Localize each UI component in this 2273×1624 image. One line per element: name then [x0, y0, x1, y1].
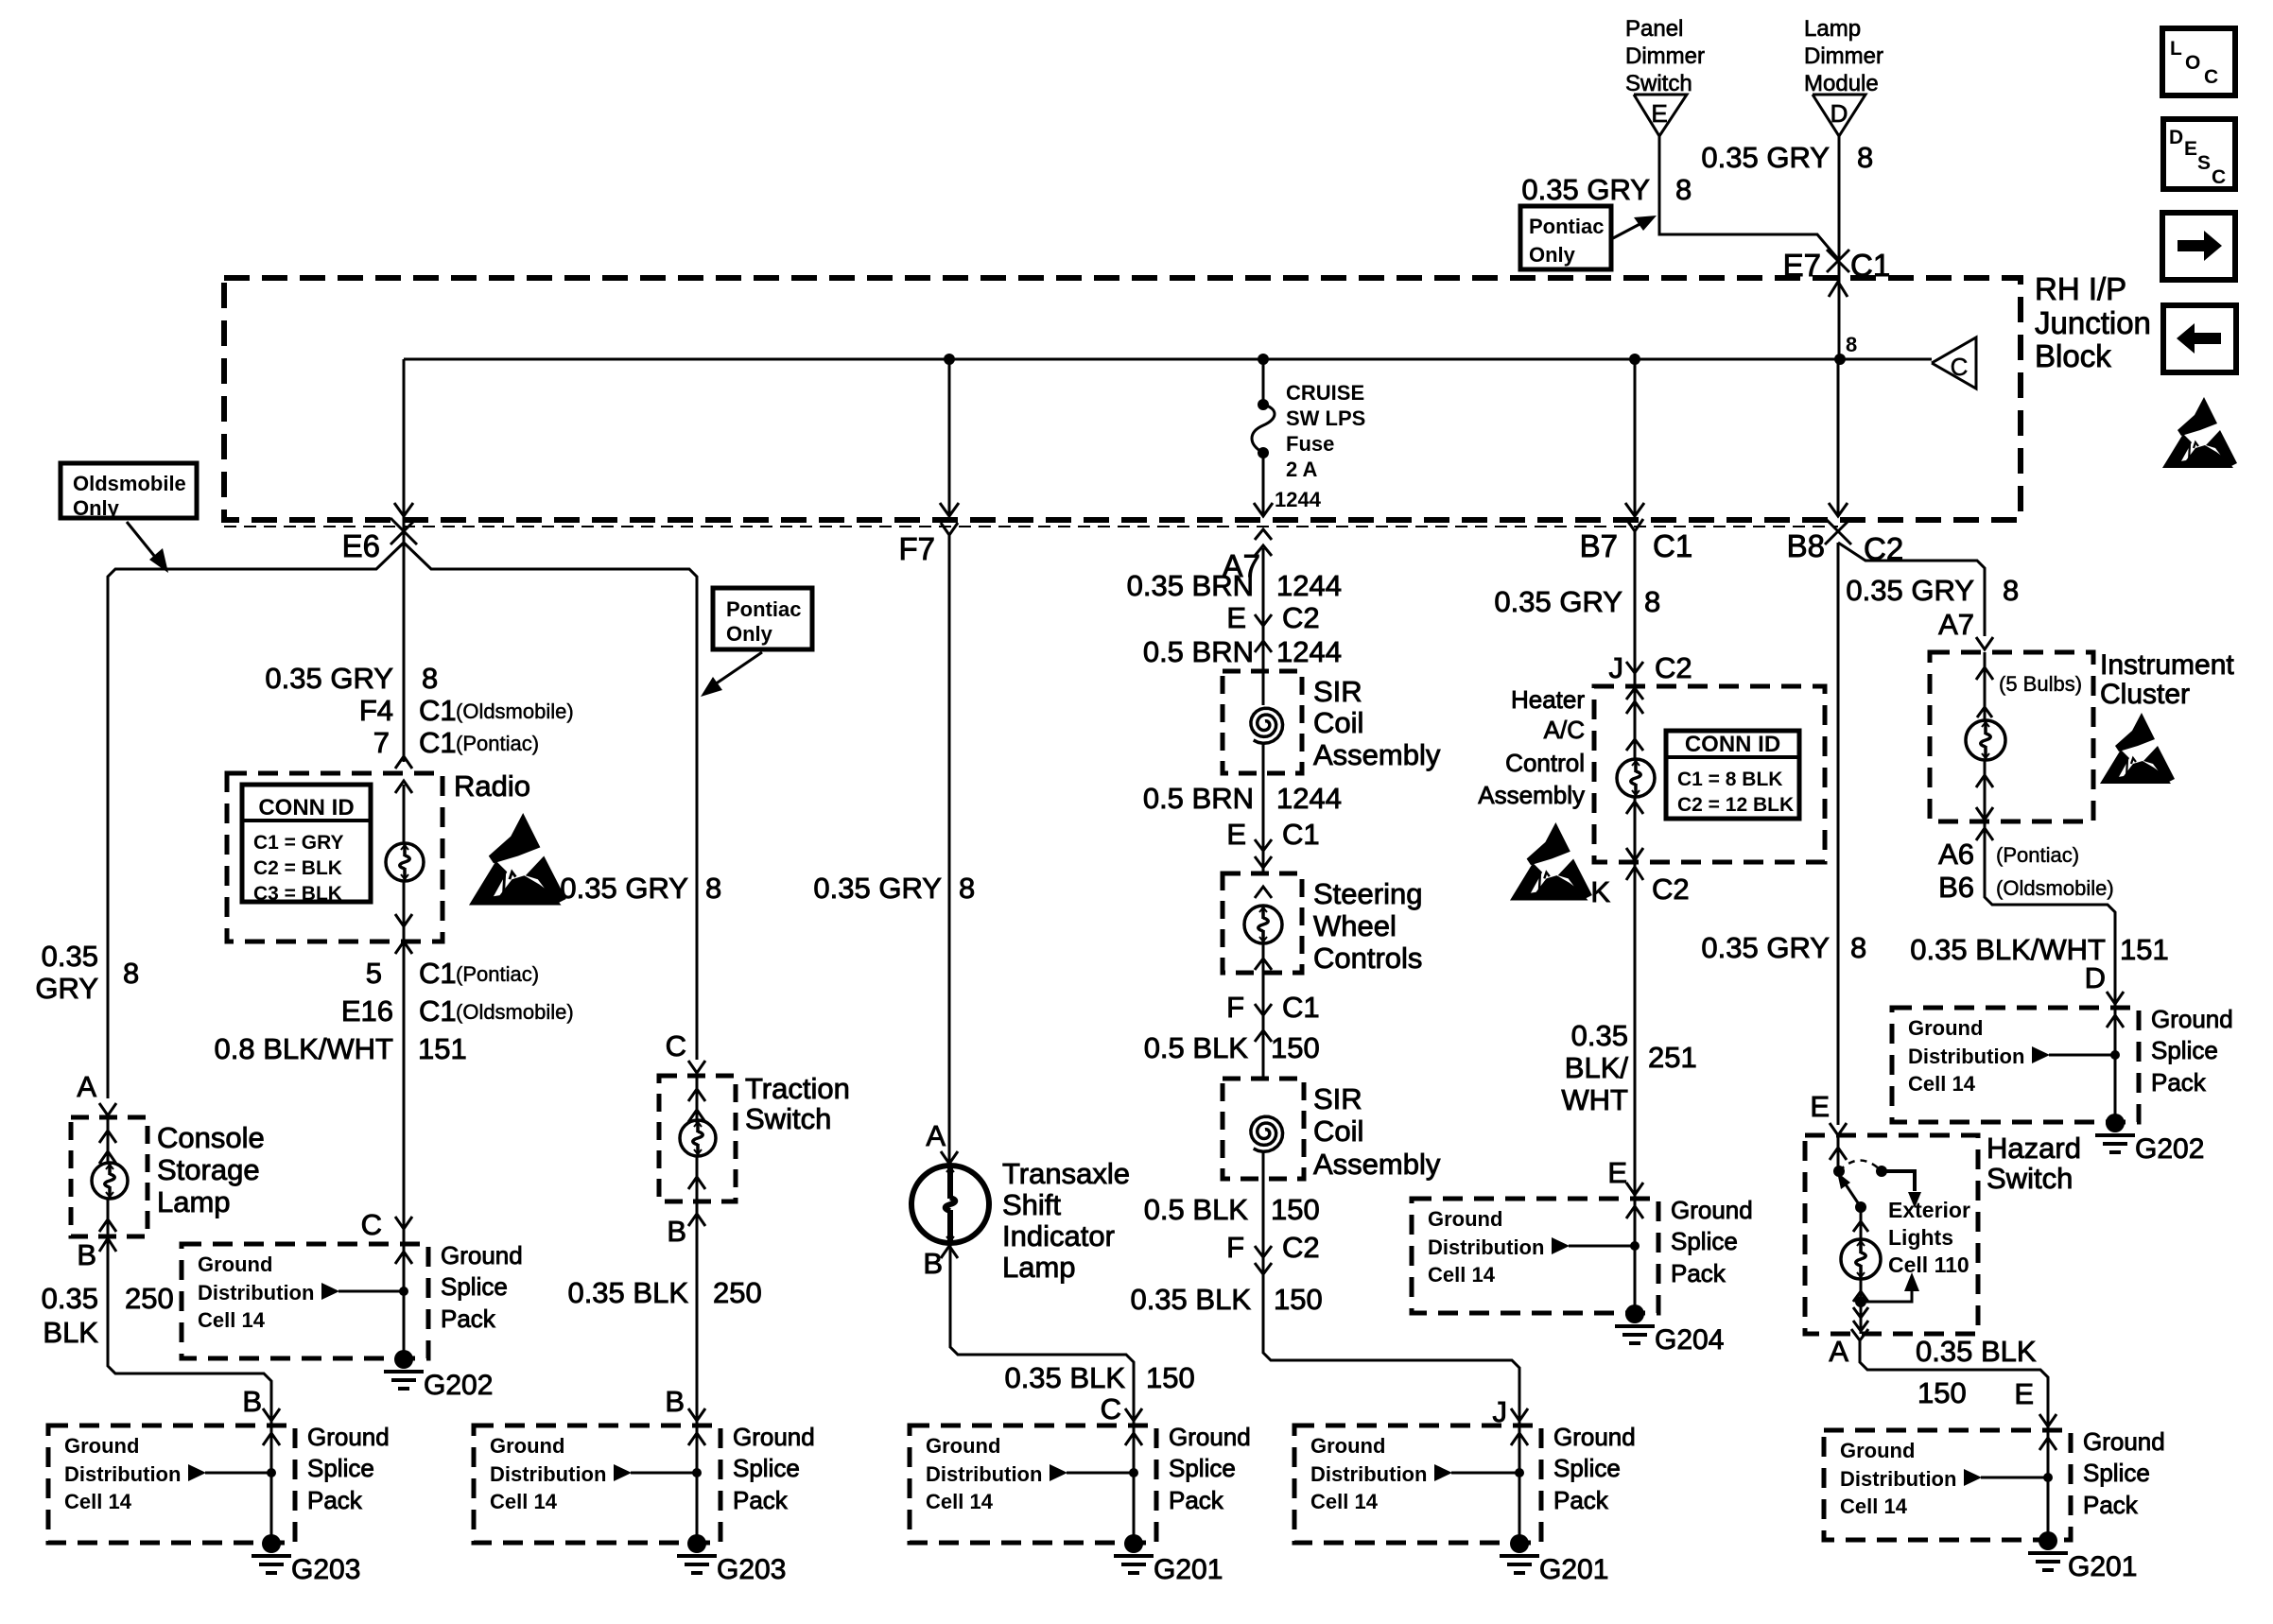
- svg-text:0.5 BLK: 0.5 BLK: [1144, 1031, 1249, 1064]
- svg-text:C1: C1: [1282, 991, 1320, 1024]
- svg-text:Distribution: Distribution: [926, 1462, 1042, 1486]
- svg-text:G201: G201: [2068, 1551, 2137, 1582]
- svg-text:SIR: SIR: [1313, 1082, 1362, 1115]
- svg-text:Ground: Ground: [1169, 1423, 1251, 1451]
- svg-text:G203: G203: [291, 1554, 360, 1585]
- svg-text:E: E: [1226, 818, 1246, 851]
- svg-text:0.35 GRY: 0.35 GRY: [813, 872, 942, 905]
- svg-text:(Pontiac): (Pontiac): [456, 732, 539, 755]
- svg-text:Splice: Splice: [1169, 1454, 1236, 1482]
- svg-text:8: 8: [2003, 574, 2019, 607]
- svg-text:F7: F7: [898, 531, 935, 566]
- svg-text:E: E: [2184, 138, 2197, 160]
- svg-text:F: F: [1226, 1231, 1244, 1264]
- svg-text:B8: B8: [1787, 528, 1825, 563]
- svg-text:G202: G202: [424, 1370, 493, 1401]
- svg-text:Pack: Pack: [733, 1486, 789, 1514]
- svg-text:B7: B7: [1580, 528, 1618, 563]
- svg-text:Radio: Radio: [454, 769, 530, 803]
- svg-text:C: C: [361, 1208, 382, 1241]
- svg-text:S: S: [2197, 152, 2211, 174]
- svg-text:K: K: [1590, 875, 1610, 908]
- svg-text:Block: Block: [2035, 338, 2111, 373]
- svg-text:Distribution: Distribution: [490, 1462, 606, 1486]
- svg-text:Cell 110: Cell 110: [1888, 1253, 1969, 1277]
- svg-text:Splice: Splice: [1671, 1227, 1738, 1255]
- svg-text:G204: G204: [1655, 1324, 1724, 1356]
- svg-text:0.35: 0.35: [42, 1282, 98, 1315]
- svg-text:Ground: Ground: [307, 1423, 390, 1451]
- svg-text:Pack: Pack: [2151, 1068, 2207, 1097]
- svg-text:SIR: SIR: [1313, 675, 1362, 708]
- svg-text:0.35 GRY: 0.35 GRY: [265, 662, 393, 695]
- svg-text:Switch: Switch: [745, 1102, 831, 1135]
- svg-text:Ground: Ground: [1310, 1434, 1385, 1458]
- svg-text:BLK: BLK: [43, 1316, 98, 1349]
- svg-text:E7: E7: [1783, 248, 1821, 283]
- svg-text:0.35 GRY: 0.35 GRY: [1494, 585, 1622, 618]
- svg-text:Ground: Ground: [2151, 1005, 2233, 1033]
- svg-text:C: C: [2212, 166, 2226, 188]
- svg-text:Distribution: Distribution: [1428, 1235, 1544, 1259]
- svg-text:0.35 GRY: 0.35 GRY: [1521, 173, 1650, 206]
- svg-text:Cell 14: Cell 14: [1310, 1490, 1379, 1513]
- svg-text:0.35 BLK: 0.35 BLK: [567, 1276, 688, 1309]
- svg-text:Coil: Coil: [1313, 706, 1363, 739]
- svg-text:Only: Only: [726, 622, 773, 646]
- svg-text:0.35 BLK: 0.35 BLK: [1130, 1283, 1251, 1316]
- svg-text:SW LPS: SW LPS: [1286, 406, 1365, 430]
- svg-text:8: 8: [422, 662, 438, 695]
- svg-text:250: 250: [125, 1282, 174, 1315]
- svg-text:Splice: Splice: [2083, 1459, 2150, 1487]
- svg-text:C2 = 12 BLK: C2 = 12 BLK: [1677, 794, 1794, 816]
- svg-text:0.35 BLK/WHT: 0.35 BLK/WHT: [1910, 933, 2106, 966]
- svg-text:C2: C2: [1282, 1231, 1320, 1264]
- svg-text:C: C: [666, 1029, 686, 1063]
- svg-text:C1: C1: [1282, 818, 1320, 851]
- svg-text:Hazard: Hazard: [1987, 1132, 2081, 1165]
- svg-text:Assembly: Assembly: [1313, 738, 1441, 771]
- svg-text:E: E: [1651, 99, 1667, 128]
- svg-text:Module: Module: [1804, 71, 1879, 96]
- svg-text:F: F: [1226, 991, 1244, 1024]
- svg-text:Assembly: Assembly: [1313, 1148, 1441, 1181]
- svg-text:8: 8: [1675, 173, 1692, 206]
- svg-text:Instrument: Instrument: [2100, 649, 2234, 681]
- svg-text:Pack: Pack: [2083, 1491, 2139, 1519]
- svg-text:Ground: Ground: [1553, 1423, 1636, 1451]
- svg-text:Only: Only: [73, 496, 120, 520]
- svg-text:Ground: Ground: [441, 1241, 523, 1270]
- svg-text:Splice: Splice: [441, 1272, 508, 1301]
- svg-text:A: A: [1829, 1335, 1848, 1368]
- svg-text:C: C: [1101, 1392, 1121, 1425]
- svg-text:B: B: [77, 1238, 96, 1271]
- svg-text:Cell 14: Cell 14: [926, 1490, 994, 1513]
- svg-text:(Oldsmobile): (Oldsmobile): [1996, 876, 2114, 900]
- svg-text:Transaxle: Transaxle: [1002, 1157, 1130, 1190]
- svg-text:Distribution: Distribution: [198, 1281, 314, 1304]
- svg-text:Fuse: Fuse: [1286, 432, 1334, 456]
- svg-text:GRY: GRY: [35, 972, 98, 1005]
- svg-text:Cell 14: Cell 14: [198, 1308, 266, 1332]
- svg-text:8: 8: [1857, 141, 1873, 174]
- svg-text:Ground: Ground: [926, 1434, 1000, 1458]
- svg-text:Pack: Pack: [1671, 1259, 1726, 1287]
- svg-text:G202: G202: [2135, 1133, 2204, 1165]
- svg-text:G201: G201: [1154, 1554, 1223, 1585]
- svg-text:0.5 BLK: 0.5 BLK: [1144, 1193, 1249, 1226]
- svg-text:Lamp: Lamp: [1002, 1251, 1076, 1284]
- svg-text:G201: G201: [1539, 1554, 1608, 1585]
- svg-text:Cluster: Cluster: [2100, 679, 2190, 710]
- svg-text:D: D: [1831, 99, 1848, 128]
- svg-text:C2: C2: [1282, 601, 1320, 634]
- svg-text:C1 = 8 BLK: C1 = 8 BLK: [1677, 769, 1782, 790]
- svg-text:Cell 14: Cell 14: [1908, 1072, 1976, 1096]
- svg-text:151: 151: [2120, 933, 2169, 966]
- svg-text:8: 8: [123, 957, 139, 990]
- svg-text:Pontiac: Pontiac: [726, 597, 801, 621]
- svg-text:C1: C1: [1653, 528, 1692, 563]
- svg-text:151: 151: [418, 1032, 467, 1065]
- svg-text:150: 150: [1917, 1376, 1967, 1409]
- svg-text:E: E: [1226, 601, 1246, 634]
- svg-text:Ground: Ground: [1840, 1439, 1915, 1462]
- svg-text:C1: C1: [419, 994, 457, 1028]
- svg-text:8: 8: [1644, 585, 1660, 618]
- svg-text:251: 251: [1648, 1041, 1697, 1074]
- svg-text:C1: C1: [419, 726, 457, 759]
- svg-text:Cell 14: Cell 14: [1428, 1263, 1496, 1287]
- svg-text:O: O: [2185, 52, 2200, 74]
- svg-text:Pack: Pack: [1553, 1486, 1609, 1514]
- svg-text:0.35 BLK: 0.35 BLK: [1004, 1361, 1125, 1394]
- svg-text:(5 Bulbs): (5 Bulbs): [1999, 672, 2082, 696]
- svg-text:C1 = GRY: C1 = GRY: [253, 832, 344, 854]
- svg-text:2 A: 2 A: [1286, 458, 1318, 481]
- svg-text:Junction: Junction: [2035, 305, 2151, 340]
- svg-text:E6: E6: [342, 528, 380, 563]
- svg-text:A7: A7: [1938, 608, 1974, 641]
- svg-text:C2 = BLK: C2 = BLK: [253, 857, 342, 879]
- svg-text:Lights: Lights: [1888, 1225, 1953, 1250]
- svg-text:BLK/: BLK/: [1565, 1051, 1629, 1084]
- svg-text:Ground: Ground: [1428, 1207, 1502, 1231]
- svg-text:Splice: Splice: [1553, 1454, 1621, 1482]
- svg-text:Cell 14: Cell 14: [64, 1490, 132, 1513]
- svg-text:1244: 1244: [1276, 782, 1342, 815]
- svg-text:Exterior: Exterior: [1888, 1198, 1970, 1222]
- svg-text:0.35: 0.35: [1571, 1019, 1628, 1052]
- svg-text:150: 150: [1271, 1031, 1320, 1064]
- svg-text:Storage: Storage: [157, 1153, 260, 1186]
- svg-text:Ground: Ground: [1671, 1196, 1753, 1224]
- svg-text:5: 5: [366, 957, 382, 990]
- svg-text:150: 150: [1271, 1193, 1320, 1226]
- svg-text:Only: Only: [1529, 243, 1576, 267]
- svg-text:Panel: Panel: [1625, 16, 1683, 42]
- svg-text:E: E: [2014, 1377, 2034, 1410]
- svg-text:C2: C2: [1655, 651, 1692, 684]
- svg-text:7: 7: [373, 726, 390, 759]
- svg-text:Indicator: Indicator: [1002, 1219, 1115, 1253]
- svg-text:Ground: Ground: [733, 1423, 815, 1451]
- svg-text:0.35 BLK: 0.35 BLK: [1916, 1335, 2037, 1368]
- svg-text:250: 250: [713, 1276, 762, 1309]
- svg-text:Pontiac: Pontiac: [1529, 215, 1604, 238]
- svg-text:Splice: Splice: [733, 1454, 800, 1482]
- svg-text:0.35 GRY: 0.35 GRY: [1846, 574, 1974, 607]
- svg-text:Switch: Switch: [1987, 1162, 2073, 1195]
- svg-text:C: C: [1951, 353, 1969, 381]
- svg-text:Dimmer: Dimmer: [1804, 43, 1883, 69]
- svg-text:F4: F4: [359, 694, 393, 727]
- svg-text:1244: 1244: [1276, 635, 1342, 668]
- svg-text:Distribution: Distribution: [1310, 1462, 1427, 1486]
- svg-text:8: 8: [959, 872, 975, 905]
- svg-text:Ground: Ground: [198, 1253, 272, 1276]
- svg-text:(Pontiac): (Pontiac): [1996, 843, 2079, 867]
- svg-text:B: B: [923, 1247, 943, 1280]
- svg-text:0.35 GRY: 0.35 GRY: [560, 872, 688, 905]
- svg-text:A: A: [926, 1119, 946, 1152]
- svg-text:Cell 14: Cell 14: [1840, 1494, 1908, 1518]
- svg-text:(Pontiac): (Pontiac): [456, 962, 539, 986]
- svg-text:Dimmer: Dimmer: [1625, 43, 1705, 69]
- svg-text:Distribution: Distribution: [64, 1462, 181, 1486]
- svg-text:Cell 14: Cell 14: [490, 1490, 558, 1513]
- svg-text:Ground: Ground: [64, 1434, 139, 1458]
- svg-text:A: A: [77, 1070, 96, 1103]
- svg-text:8: 8: [1850, 931, 1866, 964]
- svg-text:J: J: [1609, 651, 1624, 684]
- svg-text:CONN ID: CONN ID: [1685, 732, 1780, 757]
- svg-text:A/C: A/C: [1544, 716, 1585, 744]
- svg-text:B: B: [667, 1215, 686, 1248]
- svg-text:L: L: [2170, 38, 2182, 60]
- svg-text:G203: G203: [717, 1554, 786, 1585]
- svg-text:CRUISE: CRUISE: [1286, 381, 1364, 405]
- svg-text:1244: 1244: [1275, 488, 1322, 511]
- svg-text:0.5 BRN: 0.5 BRN: [1143, 635, 1254, 668]
- svg-text:WHT: WHT: [1561, 1083, 1628, 1116]
- svg-text:0.35 GRY: 0.35 GRY: [1701, 141, 1830, 174]
- svg-text:B: B: [665, 1385, 685, 1418]
- svg-text:Switch: Switch: [1625, 71, 1692, 96]
- svg-text:Splice: Splice: [307, 1454, 374, 1482]
- svg-text:(Oldsmobile): (Oldsmobile): [456, 1000, 574, 1024]
- svg-text:Pack: Pack: [307, 1486, 363, 1514]
- svg-text:150: 150: [1274, 1283, 1323, 1316]
- svg-text:B6: B6: [1938, 871, 1974, 904]
- svg-text:C1: C1: [419, 694, 457, 727]
- svg-text:C: C: [2204, 66, 2218, 88]
- svg-text:Coil: Coil: [1313, 1114, 1363, 1148]
- svg-text:(Oldsmobile): (Oldsmobile): [456, 700, 574, 723]
- svg-text:Ground: Ground: [490, 1434, 564, 1458]
- svg-text:Pack: Pack: [441, 1304, 496, 1333]
- svg-text:Ground: Ground: [1908, 1016, 1983, 1040]
- svg-text:Ground: Ground: [2083, 1427, 2165, 1456]
- svg-text:0.5 BRN: 0.5 BRN: [1143, 782, 1254, 815]
- svg-text:Heater: Heater: [1511, 685, 1585, 714]
- svg-text:CONN ID: CONN ID: [258, 795, 354, 821]
- svg-text:C1: C1: [1850, 248, 1890, 283]
- svg-text:C1: C1: [419, 957, 457, 990]
- svg-text:C3 = BLK: C3 = BLK: [253, 883, 342, 905]
- svg-text:Splice: Splice: [2151, 1036, 2218, 1064]
- svg-text:1244: 1244: [1276, 569, 1342, 602]
- svg-text:8: 8: [1846, 333, 1857, 356]
- svg-text:A6: A6: [1938, 838, 1974, 871]
- svg-text:Control: Control: [1505, 749, 1585, 777]
- svg-text:E: E: [1607, 1156, 1627, 1189]
- svg-text:Lamp: Lamp: [1804, 16, 1861, 42]
- svg-text:150: 150: [1146, 1361, 1195, 1394]
- svg-text:Wheel: Wheel: [1313, 909, 1397, 942]
- svg-text:Oldsmobile: Oldsmobile: [73, 472, 186, 495]
- svg-text:E16: E16: [341, 994, 393, 1028]
- svg-text:Assembly: Assembly: [1478, 781, 1585, 809]
- svg-text:D: D: [2169, 127, 2183, 148]
- svg-text:Steering: Steering: [1313, 877, 1422, 910]
- svg-text:Traction: Traction: [745, 1072, 850, 1105]
- svg-text:D: D: [2085, 961, 2106, 994]
- svg-text:8: 8: [705, 872, 721, 905]
- svg-text:RH I/P: RH I/P: [2035, 271, 2126, 306]
- svg-text:B: B: [242, 1385, 262, 1418]
- svg-text:C2: C2: [1652, 872, 1690, 906]
- svg-text:Shift: Shift: [1002, 1188, 1061, 1221]
- svg-text:E: E: [1810, 1090, 1830, 1123]
- svg-text:Pack: Pack: [1169, 1486, 1224, 1514]
- svg-text:Distribution: Distribution: [1840, 1467, 1956, 1491]
- svg-text:0.35 GRY: 0.35 GRY: [1701, 931, 1830, 964]
- svg-text:0.35: 0.35: [42, 940, 98, 973]
- svg-text:0.8 BLK/WHT: 0.8 BLK/WHT: [215, 1032, 394, 1065]
- svg-text:Distribution: Distribution: [1908, 1045, 2024, 1068]
- svg-text:Lamp: Lamp: [157, 1185, 231, 1218]
- svg-text:Console: Console: [157, 1121, 265, 1154]
- svg-text:0.35 BRN: 0.35 BRN: [1127, 569, 1254, 602]
- svg-text:Controls: Controls: [1313, 942, 1422, 975]
